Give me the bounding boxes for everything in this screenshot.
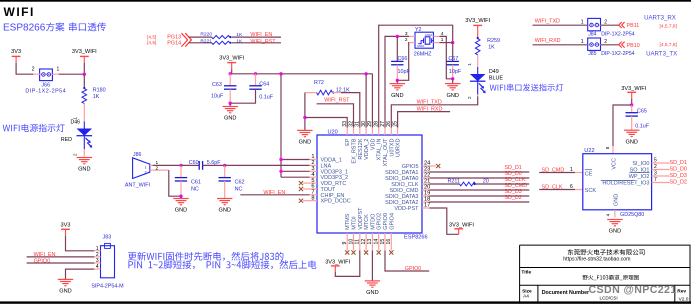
svg-text:7: 7 [654,177,657,183]
svg-text:3V3: 3V3 [11,49,21,55]
svg-text:UART3_TX: UART3_TX [646,50,677,57]
svg-text:WIFI_RST: WIFI_RST [250,39,276,45]
svg-text:3: 3 [96,258,99,264]
capacitor C61 [175,165,201,196]
wire J66 pin1 to 3V3_WIFI node [59,73,85,75]
wire 3V3_WIFI rail [229,69,373,75]
wire SD_CLK to U22 SCK [539,189,575,191]
wire GPIO0 pin15 [385,251,429,272]
net label WIFI_EN at J83 [34,252,56,258]
svg-text:10uF: 10uF [211,93,224,99]
svg-text:GND1: GND1 [417,44,425,48]
wire J83 pin4 to ground [66,269,95,279]
svg-text:SD_D2: SD_D2 [670,180,687,186]
svg-text:NC: NC [191,186,199,192]
svg-text:GPIO0: GPIO0 [383,213,389,230]
svg-text:Rev: Rev [677,288,686,294]
capacitor C65 [626,105,650,130]
svg-text:U22: U22 [584,148,594,154]
wire SD_D3 [430,195,530,197]
svg-text:GND: GND [614,194,620,206]
net label WIFI_RST at EX_RSTB [324,98,350,104]
svg-text:R72: R72 [314,80,324,86]
net label WIFI_TXD at U0TXD [417,100,442,106]
wire R72 left to ground [303,93,306,131]
svg-text:GND: GND [609,229,621,235]
node RF C62 junction [223,164,226,167]
svg-text:R221: R221 [200,38,212,44]
svg-text:[4,5,7,8]: [4,5,7,8] [660,42,677,48]
wire antenna pin2 to ground node [153,170,181,196]
resistor R180 [82,74,106,103]
antenna J86 [125,152,159,188]
power 3V3_WIFI [465,18,490,32]
svg-text:SD_D3: SD_D3 [670,173,687,179]
svg-text:Document Number: Document Number [542,290,589,296]
svg-text:GND: GND [366,290,378,296]
svg-text:D49: D49 [489,69,499,75]
svg-text:XTAL_OUT: XTAL_OUT [383,138,389,167]
svg-text:DIP-1X2-2P54: DIP-1X2-2P54 [601,31,635,37]
svg-text:2: 2 [405,37,408,43]
svg-text:10: 10 [348,239,354,245]
wire PG14 row [189,42,281,44]
svg-text:5: 5 [654,158,657,164]
U20 bottom pins 9-16 [342,207,395,251]
svg-text:2: 2 [467,96,472,99]
wire R72 right to pin31 RES12K [341,93,360,128]
svg-text:J83: J83 [103,234,112,240]
resistor R220 [200,31,243,38]
svg-text:C60: C60 [189,160,199,166]
svg-text:D46: D46 [71,120,81,126]
node C66 junction top [396,35,399,38]
svg-text:10pF: 10pF [449,69,462,75]
svg-text:XPD_DCDC: XPD_DCDC [321,199,351,205]
node 3V3_WIFI junction [83,63,86,76]
no-connect X pins 5 6 8 [299,181,303,203]
svg-text:https://fire-stm32.taobao.com: https://fire-stm32.taobao.com [563,257,630,263]
svg-text:SIP4-2P54-M: SIP4-2P54-M [91,284,124,290]
svg-text:V2.0: V2.0 [679,296,689,302]
wire VDDPST pin11 to power [335,251,360,277]
svg-text:EX_RSTB: EX_RSTB [352,138,358,163]
svg-text:WIFI_TXD: WIFI_TXD [535,19,560,25]
svg-text:GPIO0: GPIO0 [405,266,421,272]
svg-text:R211: R211 [448,179,461,185]
svg-text:GPIO2: GPIO2 [377,213,383,230]
port PG13 [147,34,181,40]
power 3V3_WIFI [72,49,97,63]
svg-text:1: 1 [581,19,584,25]
wire 3V3 to J83 pin1 [66,236,95,251]
svg-text:SD_D2: SD_D2 [504,195,521,201]
svg-text:WIFI: WIFI [4,5,35,19]
ground below D46 [77,158,92,173]
svg-text:3: 3 [654,171,657,177]
capacitor C62 [219,165,245,198]
power 3V3 [61,222,71,235]
svg-text:0.1uF: 0.1uF [635,124,649,130]
svg-text:25: 25 [392,121,398,127]
wire antenna pin1 RF [153,164,181,166]
net label WIFI_EN at CHIP_EN [263,190,285,196]
net label SD_CMD at U22 [542,167,565,173]
svg-text:GD25Q80: GD25Q80 [620,212,644,218]
port PB11 [619,22,677,29]
note WIFI TX LED [490,84,563,92]
port PB10 [619,42,677,49]
svg-text:8: 8 [605,146,610,149]
svg-text:RES12K: RES12K [358,138,364,159]
svg-text:SD_D1: SD_D1 [670,160,687,166]
svg-text:29: 29 [367,121,373,127]
power 3V3_WIFI [621,86,646,99]
svg-text:U0RXD: U0RXD [396,138,402,157]
svg-text:[4,5]: [4,5] [147,40,156,46]
svg-text:1: 1 [570,167,573,173]
svg-text:[4,5]: [4,5] [147,34,156,40]
U20 right pins 24-17 [385,161,430,213]
svg-text:ESP8266: ESP8266 [3,23,46,34]
wire SD_D0 [430,177,530,179]
wire WIFI_EN to pin7 [240,194,309,196]
svg-text:DIP-1X2-2P54: DIP-1X2-2P54 [601,51,635,57]
svg-text:J86: J86 [133,152,141,158]
svg-text:VCC: VCC [612,158,618,170]
net label UART3_TX [646,50,677,57]
wire WIFI_RXD to J85 [533,44,588,46]
connector J66 [25,67,66,95]
power 3V3 [11,49,21,63]
no-connect X pin 24 GPIO5 [430,164,441,168]
net label SD_CLK at U22 [542,185,563,191]
U20 left pins 1-8 [303,154,351,205]
svg-text:J66: J66 [41,82,50,88]
wire pin27 XTAL_OUT to crystal pin3 [385,36,409,127]
svg-text:1: 1 [57,67,60,73]
svg-text:C62: C62 [235,179,245,185]
LED D46 [61,117,93,157]
node U22 VCC junction [630,99,633,107]
net label UART3_RX [644,15,676,22]
svg-text:MTDO: MTDO [370,213,376,230]
svg-text:GND2: GND2 [425,33,433,37]
note WIFI power LED [3,124,65,132]
net label WIFI_EN [250,32,272,38]
svg-text:GND: GND [78,167,90,173]
sheet title WIFI [4,5,35,19]
svg-text:C61: C61 [191,179,201,185]
svg-text:13: 13 [367,239,373,245]
wire J84 pin2 to PB11 [601,24,619,26]
svg-text:10pF: 10pF [398,69,411,75]
connector J84 [581,18,635,37]
watermark [589,284,677,296]
svg-text:3V3: 3V3 [61,222,71,228]
net label WIFI_RST [250,39,276,45]
svg-text:C63: C63 [212,82,222,88]
net label GPIO0 at J83 [34,258,50,264]
node C67 junction top [451,41,454,44]
svg-text:3V3_WIFI: 3V3_WIFI [219,56,244,62]
svg-text:1K: 1K [236,39,243,45]
svg-text:GND: GND [224,116,236,122]
wire 3V3 bus to VDD pins [279,74,309,177]
capacitor C67 [440,43,462,79]
svg-text:BLUE: BLUE [489,76,503,82]
wire MTDO pin13 to ground [371,251,373,281]
ground below C63/C64 [223,107,238,122]
svg-text:3V3_WIFI: 3V3_WIFI [449,222,474,228]
net label SD_D2 [504,195,521,201]
wire EP pin33 to ground bus [305,118,347,128]
LED D49 [467,63,503,99]
svg-text:3V3_WIFI: 3V3_WIFI [465,18,490,24]
resistor R211 [448,179,489,186]
svg-text:RED: RED [61,137,72,143]
svg-text:GND: GND [175,208,187,214]
svg-text:J84: J84 [588,31,596,37]
power 3V3_WIFI at pin11 [325,259,350,271]
node C66 ground junction [396,79,399,84]
ground below C66 [390,84,405,99]
ground below U22 [607,220,622,235]
svg-text:A4: A4 [523,294,529,300]
wire R259 to D49 [477,55,479,67]
ground below R72 [297,130,312,145]
svg-text:33: 33 [342,121,348,127]
svg-text:GND: GND [299,140,311,146]
wire WIFI_TXD to J84 [533,24,588,26]
no-connect X bottom pins [345,250,393,254]
ground below C65 [624,130,639,145]
svg-text:R180: R180 [93,88,106,94]
svg-text:12: 12 [361,239,367,245]
svg-text:GPIO4: GPIO4 [389,213,395,230]
net label WIFI_RXD at U0RXD [417,106,443,112]
capacitor C64 [230,74,274,103]
ground below C61 [173,199,188,214]
wire 3V3 to J66 pin2 [16,63,33,74]
svg-text:EP: EP [345,138,351,146]
svg-text:SCK: SCK [585,188,597,194]
resistor R221 [200,38,243,44]
title block [520,245,690,302]
wire U0TXD to TX LED [391,96,477,127]
svg-text:30: 30 [361,121,367,127]
net label SD_D3 [504,189,521,195]
net label SD_D0 [504,171,521,177]
svg-text:9: 9 [342,242,348,245]
wire SD_D1 [430,171,530,173]
wire crystal pin4 to ground [440,36,453,78]
svg-text:0.1uF: 0.1uF [259,95,273,101]
op-amp U20 ESP8266 chip body [317,129,428,240]
svg-text:DIP-1X2-2P54: DIP-1X2-2P54 [25,89,66,95]
net label SD_CMD [504,183,527,189]
svg-text:16: 16 [386,239,392,245]
svg-text:VDD-PST: VDD-PST [394,206,419,212]
svg-text:WIFI_RXD: WIFI_RXD [535,38,561,44]
svg-text:1K: 1K [488,45,495,51]
svg-text:HOLD/RESET_IO3: HOLD/RESET_IO3 [602,181,649,187]
svg-text:31: 31 [355,121,361,127]
svg-text:SD_D0: SD_D0 [670,167,687,173]
svg-text:GND: GND [391,93,403,99]
connector J85 [581,38,635,57]
svg-text:NC: NC [235,186,243,192]
svg-text:Size: Size [522,288,532,294]
svg-text:2: 2 [96,252,99,258]
svg-text:SD_CLK: SD_CLK [504,177,525,183]
svg-text:1: 1 [467,63,472,66]
net label SD_CLK [504,177,525,183]
svg-text:Title: Title [521,269,531,275]
wire SDIO_CLK left segment [430,183,460,185]
svg-text:1: 1 [96,246,99,252]
ground below J83 [58,279,73,294]
capacitor C66 [391,36,410,80]
svg-text:C67: C67 [448,56,458,62]
wire CE stub [575,172,583,174]
svg-text:1: 1 [145,165,147,169]
wire WIFI_EN to J83 pin2 [27,256,95,258]
svg-text:CE: CE [585,172,593,178]
resistor R72 [305,80,350,95]
wire SD_CMD [430,189,530,191]
note firmware update instructions [128,252,316,269]
wire VCC to U22 [613,105,632,146]
wire J85 pin2 to PB10 [601,44,619,46]
svg-text:[4,5,7,8]: [4,5,7,8] [660,23,677,29]
svg-text:XTAL_IN: XTAL_IN [377,138,383,160]
svg-text:PB11: PB11 [627,23,640,29]
svg-text:C65: C65 [637,109,647,115]
svg-text:R220: R220 [200,31,212,37]
svg-text:C66: C66 [398,56,408,62]
svg-text:2: 2 [145,170,147,174]
svg-text:32: 32 [348,121,354,127]
svg-text:PB10: PB10 [627,43,640,49]
node C63/C64 ground junction [229,102,232,107]
svg-text:4: 4 [96,264,99,270]
svg-text:PG14: PG14 [167,40,181,46]
svg-text:6: 6 [570,184,573,190]
power 3V3_WIFI [219,56,244,70]
svg-text:MTMS: MTMS [345,213,351,230]
svg-text:CSDN @NPC221: CSDN @NPC221 [589,284,677,296]
svg-text:2: 2 [604,39,607,45]
svg-text:VDDA_2: VDDA_2 [364,139,370,160]
power 3V3_WIFI at pin17 [449,222,474,234]
U20 top pins 33-25 [342,121,402,167]
port PG14 [147,33,191,46]
net label SD_D1 [504,165,521,171]
resistor R259 [475,32,500,55]
svg-text:ESP8266: ESP8266 [404,234,428,240]
wire U0RXD [398,112,451,128]
svg-text:2: 2 [32,67,35,73]
wire rail to pin29 VDD [371,74,373,128]
svg-text:2: 2 [604,19,607,25]
wire VDD-PST pin17 to power [430,208,459,234]
wire WIFI_RST to pin32 [317,104,354,128]
svg-text:5.6pF: 5.6pF [207,160,221,166]
svg-text:26: 26 [386,121,392,127]
svg-text:ANT_WIFI: ANT_WIFI [125,182,150,188]
wire RF to LNA pin2 [225,164,310,166]
wire rail to pin30 VDDA_2 [365,74,367,128]
svg-text:3V3_WIFI: 3V3_WIFI [621,86,646,92]
svg-text:GND: GND [446,93,458,99]
svg-text:GND: GND [59,289,71,295]
svg-text:WP_IO2: WP_IO2 [629,174,650,180]
ground below U20 [365,281,380,296]
wire SDIO_CLK right segment [476,183,530,185]
svg-text:U20: U20 [328,129,338,135]
crystal Y2 26MHZ [405,27,444,57]
svg-text:WIFI_EN: WIFI_EN [250,32,272,38]
svg-text:1K: 1K [93,94,100,100]
svg-text:27: 27 [380,121,386,127]
wire SD_D2 [430,201,530,203]
U22 GND pin 4 [606,210,615,218]
wire SD_CMD to U22 CE [539,172,575,174]
svg-text:WIFI_RST: WIFI_RST [324,98,350,104]
svg-text:GND: GND [625,139,637,145]
svg-text:26MHZ: 26MHZ [414,51,432,57]
svg-text:28: 28 [374,121,380,127]
node C61 ground junction [179,195,182,199]
flash U22 GD25Q80 [570,146,652,218]
connector J83 [91,234,124,289]
wire GPIO0 to J83 pin3 [27,262,95,264]
svg-text:4: 4 [606,213,611,216]
svg-text:2: 2 [654,164,657,170]
node C67 ground junction [451,77,454,83]
node RF C61 junction [179,164,182,167]
svg-text:1K: 1K [236,32,243,38]
capacitor C60 series [181,160,225,170]
svg-text:3V3_WIFI: 3V3_WIFI [72,49,97,55]
svg-text:8: 8 [311,195,314,201]
svg-text:J85: J85 [588,51,596,57]
svg-text:C64: C64 [259,82,269,88]
wire VCC stub [612,146,614,154]
wire R180 to D46 [83,104,85,122]
svg-text:VDD: VDD [370,138,376,150]
svg-text:GND: GND [218,208,230,214]
net label GPIO0 [405,266,421,272]
svg-text:15: 15 [380,239,386,245]
U22 right pins [601,158,687,187]
svg-text:U0TXD: U0TXD [389,138,395,156]
capacitor C63 [211,74,236,103]
net label WIFI_RXD at J85 [535,38,561,44]
svg-text:R259: R259 [487,38,500,44]
svg-text:UART3_RX: UART3_RX [644,15,676,22]
wire crystal pin2 to ground [397,43,409,81]
ground below C62 [217,199,232,214]
svg-text:MTDI: MTDI [352,216,358,230]
svg-text:17: 17 [424,203,430,209]
svg-text:MTCK: MTCK [364,214,370,230]
svg-text:11: 11 [355,239,361,244]
subtitle ESP8266 solution [3,22,106,33]
svg-text:2: 2 [73,153,78,156]
ground below C67 [445,84,460,99]
